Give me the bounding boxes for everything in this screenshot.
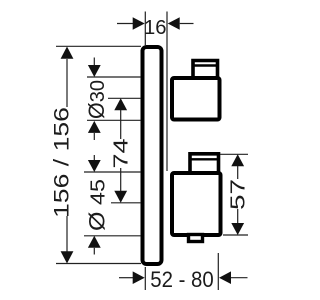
dimension 74 extension bottom [111, 202, 141, 204]
lower knob step inner line [189, 158, 221, 160]
dimension diam30 bottom arrow [88, 121, 101, 133]
svg-text:Ø30: Ø30 [84, 80, 109, 119]
upper knob body [172, 78, 220, 120]
dimension diam45 bottom arrow [88, 236, 101, 248]
dimension diam30 extension top [87, 76, 141, 78]
plate (escutcheon side view) [143, 47, 162, 264]
dimension 156/156 line with arrows [61, 47, 74, 59]
dimension 52-80 extension left [144, 267, 146, 290]
lower knob step cap [190, 154, 219, 174]
dimension diam45 extension bottom [84, 235, 141, 237]
dimension 52-80 left arrow [119, 277, 134, 279]
dimension 156/156 extension line top [56, 45, 141, 47]
dimension 57 extension bottom [223, 234, 248, 236]
dimension 74 extension top [108, 97, 141, 99]
dimension diam30 top arrow [93, 58, 95, 66]
dimension 16 left arrow [117, 23, 134, 25]
svg-text:16: 16 [144, 16, 167, 39]
upper knob step cap [193, 61, 218, 80]
dimension 57 line with arrows [231, 154, 244, 166]
dimension 16 right arrow [168, 17, 180, 30]
dimension 16 extension line right [166, 12, 168, 172]
dimension diam30 extension bottom [87, 119, 141, 121]
dimension 57 extension top [220, 153, 248, 155]
dimension diam45 extension top [84, 171, 141, 173]
dimension 52-80 right arrow [219, 271, 231, 284]
dimension 156/156 extension line bottom [56, 263, 141, 265]
svg-text:156 / 156: 156 / 156 [51, 107, 74, 218]
lower knob body [172, 173, 221, 235]
svg-text:74: 74 [110, 139, 132, 169]
dimension 16 extension line left [144, 12, 146, 46]
dimension 74 line with arrows [114, 98, 127, 110]
lower knob bottom tab [189, 235, 203, 242]
dimension 52-80 extension right [217, 253, 219, 290]
svg-text:57: 57 [227, 179, 249, 210]
svg-text:Ø 45: Ø 45 [85, 179, 110, 231]
svg-text:52 - 80: 52 - 80 [150, 267, 214, 292]
dimension diam45 top arrow [93, 155, 95, 161]
upper knob step inner line [192, 64, 220, 66]
